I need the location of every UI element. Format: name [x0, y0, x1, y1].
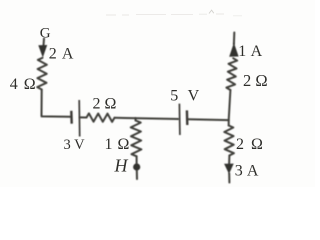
wire stub below node H [136, 171, 138, 180]
svg-text:H: H [114, 156, 129, 176]
svg-text:4 Ω: 4 Ω [10, 76, 37, 93]
wire left-branch below 4-ohm [41, 90, 43, 116]
wire 3V battery to 2-ohm zigzag [80, 116, 86, 118]
battery B1 3V long plate (positive) [78, 100, 81, 137]
resistor 2-ohm lower right [224, 126, 234, 156]
wire 2-ohm to 5V battery [115, 118, 179, 119]
battery B2 5V long plate (positive) [178, 104, 181, 135]
arrowhead 1A current up (right branch) [229, 43, 238, 57]
wire right-branch middle [229, 90, 231, 120]
wire bottom horizontal left (corner to 3V battery) [42, 116, 71, 117]
wire lower 2-ohm to 3A arrow [228, 156, 230, 166]
svg-text:3 A: 3 A [235, 163, 259, 180]
svg-text:2 Ω: 2 Ω [236, 136, 264, 153]
svg-text:2 A: 2 A [49, 45, 75, 62]
resistor 2-ohm upper right [226, 58, 237, 90]
wire left-branch top tail [42, 39, 45, 51]
svg-text:1 Ω: 1 Ω [105, 136, 130, 153]
resistor 4-ohm vertical [37, 58, 47, 90]
battery B2 5V short plate (negative) [186, 110, 189, 125]
svg-text:2 Ω: 2 Ω [243, 71, 268, 90]
wire 5V battery to right branch [188, 118, 229, 121]
svg-text:1 A: 1 A [238, 43, 262, 60]
svg-text:3 V: 3 V [64, 137, 86, 153]
arrowhead 3A current down (right branch) [224, 164, 234, 174]
arrowhead 2A current down (left branch) [38, 45, 47, 58]
wire 1-ohm to node H [136, 156, 138, 163]
wire node junction to 1-ohm [134, 118, 136, 121]
wire right-branch junction to lower 2-ohm [228, 120, 230, 125]
wire right-branch top tail [233, 33, 235, 45]
battery B1 3V short plate (negative) [70, 111, 73, 124]
svg-text:G: G [40, 25, 51, 41]
resistor 1-ohm vertical [131, 121, 142, 157]
node H dot [133, 163, 140, 170]
resistor R 2-ohm horizontal [87, 113, 115, 122]
svg-text:2 Ω: 2 Ω [93, 96, 117, 113]
svg-text:5 V: 5 V [170, 87, 202, 104]
wire tail below 3A arrowhead [228, 174, 230, 183]
